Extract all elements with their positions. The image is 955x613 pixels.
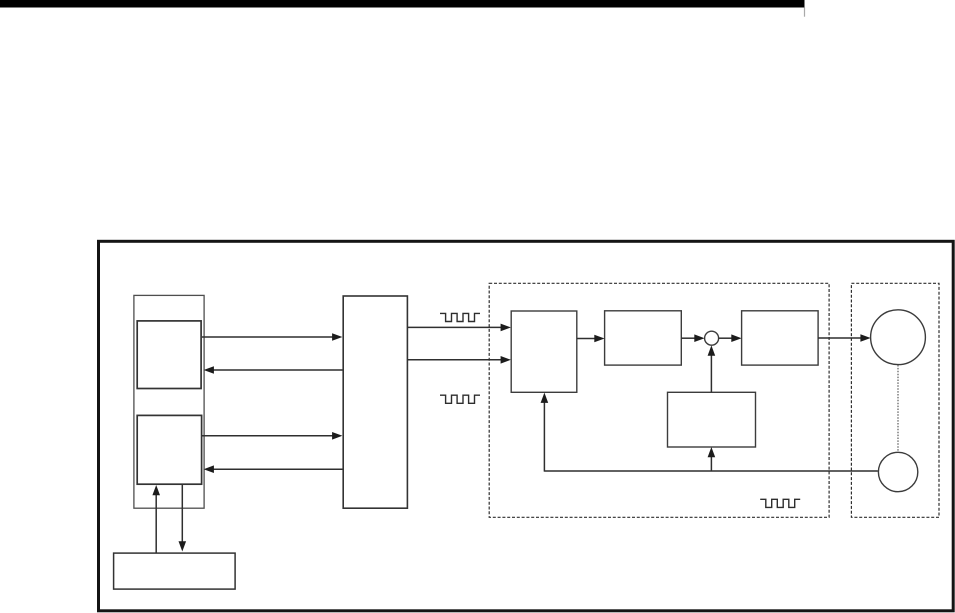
- wire: B to summing node (arrow right): [681, 334, 704, 342]
- servo amplifier dashed enclosure: [489, 283, 829, 517]
- shaft dotted link: [897, 365, 899, 452]
- motor dashed enclosure: [851, 283, 939, 517]
- header rule bar: [0, 0, 805, 8]
- block: power amplifier (C): [742, 311, 819, 365]
- wire: feedback branch to D (arrow up): [708, 447, 716, 471]
- pulse train symbol (lower): [440, 395, 480, 403]
- controller group box: [134, 295, 204, 508]
- pulse train symbol (upper): [440, 313, 480, 321]
- header tick line: [804, 8, 805, 17]
- summing node circle: [705, 331, 719, 345]
- wire: feedback riser to A (arrow up): [541, 393, 549, 472]
- wire: A to B (arrow right): [577, 335, 605, 343]
- wire: upper square to module (arrow right): [202, 333, 342, 341]
- block: pulse output module (middle tall): [343, 296, 407, 508]
- block: D/A converter (B): [605, 311, 682, 365]
- wire: encoder feedback horizontal: [544, 470, 878, 472]
- block: interface box (bottom): [114, 553, 236, 589]
- wire: pulse output lower to deviation counter (arrow right): [408, 356, 511, 364]
- motor circle: [871, 310, 926, 365]
- wire: lower square down to interface (arrow down): [179, 485, 187, 552]
- block: position command unit (upper square): [137, 321, 201, 389]
- pulse train symbol (feedback): [760, 499, 800, 507]
- encoder circle: [878, 452, 917, 491]
- wire: lower square to module (arrow right): [202, 432, 342, 440]
- wire: summing node to C (arrow right): [719, 334, 742, 342]
- wire: interface up to lower square (arrow up): [152, 485, 160, 553]
- figure outer border: [99, 241, 954, 611]
- block: deviation counter (A): [511, 311, 577, 392]
- wire: module to upper square (arrow left): [204, 366, 343, 374]
- wire: D up to summing node (arrow up): [708, 345, 716, 392]
- wire: pulse output upper to deviation counter (arrow right): [408, 324, 511, 332]
- block: feedback counter unit (lower square): [137, 415, 201, 484]
- wire: C to motor (arrow right): [818, 334, 871, 342]
- wire: module to lower square (arrow left): [204, 465, 343, 473]
- block: speed detection (D): [668, 392, 756, 447]
